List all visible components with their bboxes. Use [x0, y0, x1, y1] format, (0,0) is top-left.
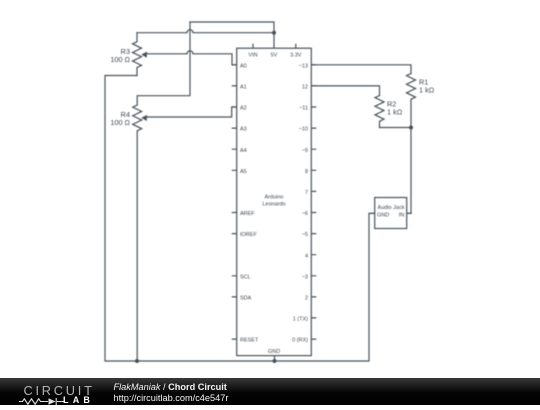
wiper arrow R4	[141, 115, 147, 121]
wire pin 13 to R1	[311, 65, 411, 74]
svg-text:GND: GND	[377, 213, 389, 219]
wire 5V pin	[273, 33, 275, 49]
pin stub GND	[274, 356, 276, 361]
svg-text:~5: ~5	[302, 232, 308, 238]
wire R3 top to 5V rail	[137, 30, 274, 33]
label R3	[110, 47, 130, 64]
svg-text:IN: IN	[399, 213, 405, 219]
wire pin 12 to R2	[311, 86, 379, 96]
label pins right	[292, 63, 308, 343]
svg-text:0 (RX): 0 (RX)	[292, 338, 308, 344]
svg-text:8: 8	[305, 169, 308, 175]
svg-text:~10: ~10	[299, 127, 308, 133]
svg-text:7: 7	[305, 190, 308, 196]
svg-text:SDA: SDA	[240, 296, 252, 302]
pin stub jack GND	[370, 212, 375, 214]
svg-text:VIN: VIN	[248, 53, 257, 59]
svg-text:100 Ω: 100 Ω	[110, 55, 130, 64]
label pins left	[240, 63, 259, 343]
wire 5V to R4 top	[137, 22, 190, 105]
resistor R4	[133, 105, 142, 361]
wire R3 bottom ground net	[105, 76, 375, 362]
svg-text:IOREF: IOREF	[240, 232, 257, 238]
label pins top	[248, 53, 301, 59]
svg-text:RESET: RESET	[240, 338, 259, 344]
svg-text:AREF: AREF	[240, 211, 255, 217]
label R4	[110, 110, 130, 127]
pin stub jack IN	[407, 212, 412, 214]
svg-text:2: 2	[305, 296, 308, 302]
svg-text:Leonardo: Leonardo	[262, 201, 285, 207]
resistor R1	[407, 74, 416, 128]
label R1	[419, 78, 435, 95]
label audio jack	[377, 205, 405, 218]
svg-text:100 Ω: 100 Ω	[110, 118, 130, 127]
svg-text:GND: GND	[268, 349, 280, 355]
wire R4 wiper to A2	[147, 107, 237, 117]
svg-text:5V: 5V	[271, 53, 278, 59]
label Arduino Leonardo	[262, 194, 285, 207]
pin stub VIN	[252, 44, 254, 49]
svg-text:SCL: SCL	[240, 274, 251, 280]
wire node to audio jack IN	[407, 128, 411, 214]
svg-text:12: 12	[302, 85, 308, 91]
node 5V junction	[272, 31, 276, 35]
audio jack J1	[370, 198, 412, 229]
svg-text:~11: ~11	[299, 106, 308, 112]
svg-text:A1: A1	[240, 85, 247, 91]
node R1 R2 junction	[409, 126, 413, 130]
pin stubs left	[232, 65, 237, 339]
svg-text:Audio Jack: Audio Jack	[378, 205, 405, 211]
svg-text:1 kΩ: 1 kΩ	[387, 107, 403, 116]
label R2	[387, 99, 403, 116]
resistor R2	[375, 96, 384, 128]
pin stub 3.3V	[295, 44, 297, 49]
svg-text:~6: ~6	[302, 211, 308, 217]
svg-text:1 (TX): 1 (TX)	[293, 317, 308, 323]
svg-text:~3: ~3	[302, 274, 308, 280]
svg-text:A4: A4	[240, 148, 247, 154]
svg-text:~9: ~9	[302, 148, 308, 154]
svg-text:A3: A3	[240, 127, 247, 133]
logo resistor-diode squiggle	[19, 398, 65, 405]
resistor R3	[133, 33, 142, 76]
wire 5V top loop	[190, 22, 274, 33]
CircuitLab logo	[24, 383, 95, 398]
svg-text:1 kΩ: 1 kΩ	[419, 86, 435, 95]
node GND junction	[273, 359, 277, 363]
pin stubs right	[311, 65, 316, 339]
wire R3 wiper to A0	[147, 51, 237, 65]
wiper arrow R3	[141, 52, 147, 58]
footer bar	[0, 378, 540, 405]
IC U1 Arduino Leonardo	[232, 44, 317, 361]
svg-text:Arduino: Arduino	[265, 194, 284, 200]
svg-text:A0: A0	[240, 63, 247, 69]
svg-text:3.3V: 3.3V	[290, 53, 302, 59]
svg-text:A2: A2	[240, 106, 247, 112]
node R4 ground junction	[135, 359, 139, 363]
wire R2 to node	[380, 127, 412, 129]
svg-text:~13: ~13	[299, 63, 308, 69]
svg-text:A5: A5	[240, 169, 247, 175]
svg-text:4: 4	[305, 253, 308, 259]
